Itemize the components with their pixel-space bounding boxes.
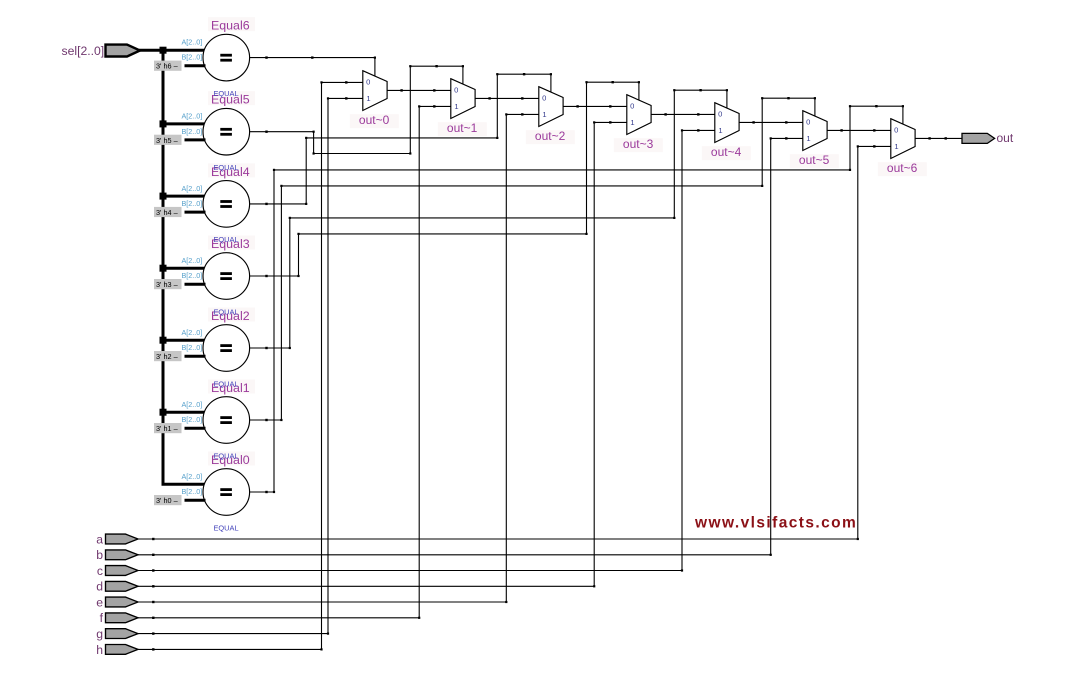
junction sel bus at Equal6 tap — [160, 47, 167, 54]
svg-text:Equal6: Equal6 — [211, 19, 250, 33]
wire net sel_eq5: Equal5 output to out~1 select — [250, 65, 464, 155]
svg-text:0: 0 — [894, 126, 898, 135]
input pin sel[2..0] — [62, 44, 141, 58]
svg-text:0: 0 — [542, 94, 546, 103]
svg-text:1: 1 — [806, 134, 810, 143]
input pin c — [97, 564, 138, 578]
svg-text:1: 1 — [366, 94, 370, 103]
svg-text:sel[2..0]: sel[2..0] — [62, 44, 105, 58]
svg-text:EQUAL: EQUAL — [214, 307, 239, 316]
mux out~5 (2:1 multiplexer) — [790, 111, 839, 169]
svg-text:B[2..0]: B[2..0] — [182, 343, 203, 352]
input pin h — [96, 643, 138, 657]
svg-text:B[2..0]: B[2..0] — [182, 487, 203, 496]
svg-text:3' h5 –: 3' h5 – — [156, 136, 179, 145]
wire constant 3'h6 to Equal6 B input — [185, 64, 206, 67]
input pin a — [96, 532, 138, 546]
svg-text:3' h0 –: 3' h0 – — [156, 496, 179, 505]
svg-text:EQUAL: EQUAL — [214, 235, 239, 244]
wire sel bus tap to Equal4 A input — [162, 195, 206, 198]
svg-text:0: 0 — [630, 102, 634, 111]
input pin g — [96, 627, 138, 641]
wire constant 3'h0 to Equal0 B input — [185, 499, 206, 502]
constant 3'h6 — [154, 61, 182, 71]
svg-text:1: 1 — [630, 118, 634, 127]
svg-text:EQUAL: EQUAL — [214, 163, 239, 172]
wire net e: input e to out~2 data input — [138, 113, 539, 603]
wire net sel_eq3: Equal3 output to out~3 select — [250, 81, 640, 277]
svg-text:B[2..0]: B[2..0] — [182, 127, 203, 136]
wire sel bus tap to Equal1 A input — [162, 411, 206, 414]
svg-text:h: h — [96, 643, 103, 657]
svg-text:B[2..0]: B[2..0] — [182, 53, 203, 62]
wire net out~1: out~1 output to out~2 — [475, 97, 539, 99]
comparator Equal2 (U_eq2) — [203, 308, 255, 372]
wire sel bus: pin to Equal6 A input — [139, 49, 206, 52]
svg-text:A[2..0]: A[2..0] — [182, 112, 203, 121]
mux out~1 (2:1 multiplexer) — [438, 79, 487, 137]
svg-text:www.vlsifacts.com: www.vlsifacts.com — [694, 514, 857, 531]
svg-text:3' h2 –: 3' h2 – — [156, 352, 179, 361]
wire net out~2: out~2 output to out~3 — [563, 105, 627, 107]
mux out~4 (2:1 multiplexer) — [702, 103, 751, 161]
junction sel bus at Equal4 tap — [160, 193, 167, 200]
wire net sel_eq4: Equal4 output to out~2 select — [250, 73, 552, 205]
input pin f — [100, 611, 138, 625]
wire sel bus tap to Equal3 A input — [162, 267, 206, 270]
wire net sel_eq0: Equal0 output to out~6 select — [250, 105, 904, 493]
svg-text:out~5: out~5 — [799, 153, 830, 167]
mux out~0 (2:1 multiplexer) — [350, 71, 399, 129]
wire net c: input c to out~4 data input — [138, 129, 715, 572]
output pin out — [962, 131, 1014, 145]
wire net f: input f to out~1 data input — [138, 105, 451, 619]
svg-text:out~6: out~6 — [887, 161, 918, 175]
svg-text:b: b — [96, 548, 103, 562]
svg-text:a: a — [96, 532, 103, 546]
svg-text:out~3: out~3 — [623, 137, 654, 151]
comparator Equal5 (U_eq5) — [203, 91, 255, 155]
svg-text:out~0: out~0 — [359, 113, 390, 127]
svg-text:0: 0 — [366, 78, 370, 87]
svg-text:1: 1 — [454, 102, 458, 111]
svg-text:0: 0 — [806, 118, 810, 127]
wire net a: input a to out~6 data input — [138, 145, 891, 540]
svg-text:EQUAL: EQUAL — [214, 451, 239, 460]
wire net d: input d to out~3 data input — [138, 121, 627, 587]
svg-text:A[2..0]: A[2..0] — [182, 256, 203, 265]
svg-text:1: 1 — [542, 110, 546, 119]
wire sel bus vertical — [162, 50, 165, 484]
wire net b: input b to out~5 data input — [138, 137, 803, 556]
wire net sel_eq2: Equal2 output to out~4 select — [250, 89, 728, 349]
input pin b — [96, 548, 138, 562]
wire constant 3'h4 to Equal4 B input — [185, 211, 206, 214]
comparator Equal3 (U_eq3) — [203, 236, 255, 300]
wire constant 3'h1 to Equal1 B input — [185, 427, 206, 430]
junction sel bus at Equal2 tap — [160, 337, 167, 344]
svg-text:out: out — [997, 131, 1014, 145]
svg-text:B[2..0]: B[2..0] — [182, 199, 203, 208]
wire net out~6: out~6 output to pin out — [915, 137, 962, 139]
wire constant 3'h2 to Equal2 B input — [185, 355, 206, 358]
svg-text:g: g — [96, 627, 103, 641]
svg-text:A[2..0]: A[2..0] — [182, 472, 203, 481]
input pin d — [96, 580, 138, 594]
svg-text:B[2..0]: B[2..0] — [182, 415, 203, 424]
svg-text:A[2..0]: A[2..0] — [182, 328, 203, 337]
svg-text:3' h6 –: 3' h6 – — [156, 62, 179, 71]
constant 3'h5 — [154, 135, 182, 145]
wire sel bus tap to Equal2 A input — [162, 339, 206, 342]
svg-text:3' h4 –: 3' h4 – — [156, 208, 179, 217]
comparator Equal1 (U_eq1) — [203, 380, 255, 444]
wire sel bus elbow to Equal0 A input — [162, 483, 206, 486]
wire net sel_eq6: Equal6 output to out~0 select — [250, 56, 376, 76]
svg-text:A[2..0]: A[2..0] — [182, 38, 203, 47]
wire net sel_eq1: Equal1 output to out~5 select — [250, 97, 816, 421]
svg-text:EQUAL: EQUAL — [214, 523, 239, 532]
svg-text:out~4: out~4 — [711, 145, 742, 159]
svg-text:0: 0 — [718, 110, 722, 119]
junction sel bus at Equal1 tap — [160, 409, 167, 416]
svg-text:e: e — [96, 595, 103, 609]
svg-text:EQUAL: EQUAL — [214, 379, 239, 388]
svg-text:A[2..0]: A[2..0] — [182, 400, 203, 409]
wire net out~3: out~3 output to out~4 — [651, 113, 715, 115]
wire net out~4: out~4 output to out~5 — [739, 121, 803, 123]
wire net h: input h to out~0 data input — [138, 81, 363, 650]
junction sel bus at Equal3 tap — [160, 265, 167, 272]
svg-text:A[2..0]: A[2..0] — [182, 184, 203, 193]
mux out~6 (2:1 multiplexer) — [878, 119, 927, 177]
wire constant 3'h5 to Equal5 B input — [185, 138, 206, 141]
wire net g: input g to out~0 data input — [138, 97, 363, 635]
svg-text:d: d — [96, 580, 103, 594]
constant 3'h0 — [154, 495, 182, 505]
constant 3'h2 — [154, 351, 182, 361]
input pin e — [96, 595, 138, 609]
svg-text:out~1: out~1 — [447, 121, 478, 135]
svg-text:3' h1 –: 3' h1 – — [156, 424, 179, 433]
svg-text:3' h3 –: 3' h3 – — [156, 280, 179, 289]
mux out~3 (2:1 multiplexer) — [614, 95, 663, 153]
wire net out~5: out~5 output to out~6 — [827, 129, 891, 131]
svg-text:c: c — [97, 564, 103, 578]
comparator Equal4 (U_eq4) — [203, 163, 255, 227]
comparator Equal0 (U_eq0) — [203, 452, 255, 516]
junction sel bus at Equal5 tap — [160, 120, 167, 127]
svg-text:1: 1 — [718, 126, 722, 135]
svg-text:out~2: out~2 — [535, 129, 566, 143]
svg-text:B[2..0]: B[2..0] — [182, 271, 203, 280]
wire constant 3'h3 to Equal3 B input — [185, 283, 206, 286]
constant 3'h3 — [154, 279, 182, 289]
wire net out~0: out~0 output to out~1 — [387, 89, 451, 91]
comparator Equal6 (U_eq6) — [203, 17, 255, 81]
svg-text:EQUAL: EQUAL — [214, 89, 239, 98]
constant 3'h1 — [154, 423, 182, 433]
svg-text:0: 0 — [454, 86, 458, 95]
svg-text:1: 1 — [894, 142, 898, 151]
wire sel bus tap to Equal5 A input — [162, 122, 206, 125]
mux out~2 (2:1 multiplexer) — [526, 87, 575, 145]
constant 3'h4 — [154, 207, 182, 217]
